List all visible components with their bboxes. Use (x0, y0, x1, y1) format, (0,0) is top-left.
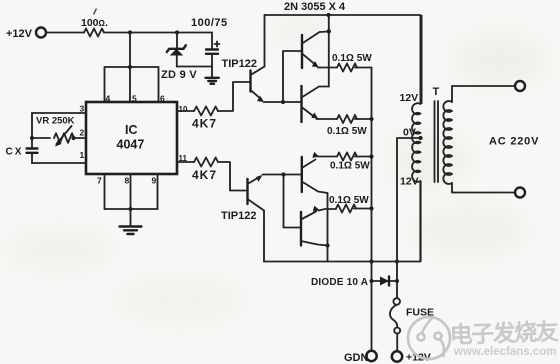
stray mark (94, 9, 97, 15)
capacitor CX (6, 147, 38, 164)
svg-text:TIP122: TIP122 (221, 210, 256, 222)
wire join pins 7-9 (105, 208, 158, 210)
transistor TIP122 upper (222, 58, 265, 102)
wire pin11 to lower TIP122 base (218, 162, 246, 191)
node junction at feed (128, 30, 132, 34)
wire branch down to Q4 base (284, 175, 302, 228)
node collectors join (325, 243, 329, 247)
wire R3 to bus (355, 156, 372, 158)
wire R1 to bus (355, 67, 372, 69)
transformer T primary winding (412, 103, 420, 182)
svg-text:4: 4 (106, 94, 111, 104)
IC U1 4047 box (86, 102, 177, 174)
wire bracket horizontal (105, 66, 159, 68)
terminal +12V input (6, 28, 46, 41)
resistor R 4K7 lower (192, 158, 218, 183)
svg-text:0.1Ω 5W: 0.1Ω 5W (327, 126, 367, 137)
transistor Q2 2N3055 (302, 86, 329, 122)
terminal AC bottom (515, 188, 525, 198)
node center tap (418, 136, 422, 140)
svg-text:12V: 12V (400, 92, 419, 104)
transformer T primary lead top (420, 15, 423, 104)
wire top rail left (46, 32, 84, 34)
wire R4 to bus (354, 208, 372, 210)
node base branch upper (281, 100, 285, 104)
svg-text:100/75: 100/75 (191, 17, 228, 29)
wire secondary bottom lead (452, 183, 516, 193)
svg-text:GDN: GDN (344, 352, 369, 364)
transformer core (435, 101, 439, 182)
transistor Q4 2N3055 (301, 206, 328, 246)
wire top rail to cap (104, 32, 212, 34)
svg-text:DIODE 10 A: DIODE 10 A (311, 277, 368, 288)
svg-text:12V: 12V (400, 176, 419, 188)
node diode right (395, 279, 399, 283)
transistor TIP122 lower (221, 175, 264, 222)
svg-text:5: 5 (132, 94, 137, 104)
ground below IC (120, 209, 142, 234)
wire Q1 emitter to R1 (318, 67, 337, 69)
node junction at zener (175, 30, 179, 34)
svg-text:4047: 4047 (117, 138, 145, 152)
capacitor 100/75 (191, 17, 228, 67)
potentiometer VR 250K (30, 116, 86, 147)
wire pin9 drop (157, 174, 159, 209)
resistor R3 0.1ohm 5W (330, 153, 370, 172)
wire pin5 drop (129, 67, 131, 102)
node tap bottom rail (395, 259, 399, 263)
resistor R 4K7 upper (192, 107, 218, 131)
svg-text:TIP122: TIP122 (222, 58, 257, 70)
wire pin1 (32, 162, 86, 164)
svg-text:ZD 9 V: ZD 9 V (161, 69, 197, 81)
wire pin10 to TIP122 base (218, 82, 251, 111)
wire R2 to bus (355, 118, 372, 120)
resistor 100ohm (81, 17, 108, 37)
node bus R2 (369, 117, 373, 121)
node bus R4 (369, 206, 373, 210)
svg-text:10: 10 (179, 105, 188, 114)
watermark text (449, 318, 559, 358)
terminal +12 battery (392, 351, 431, 363)
wire feed down to pins bracket (129, 33, 131, 68)
wire zener to cap bottom (177, 66, 212, 68)
svg-text:IC: IC (125, 123, 138, 137)
svg-text:+12V: +12V (6, 28, 33, 40)
svg-text:0.1Ω 5W: 0.1Ω 5W (329, 195, 369, 206)
transformer secondary winding (443, 101, 452, 184)
svg-text:3: 3 (80, 104, 85, 114)
wire Q2 emitter to R2 (317, 118, 338, 120)
node on bracket (128, 65, 132, 69)
svg-text:4K7: 4K7 (192, 168, 217, 182)
node Q1 collector joint (327, 29, 331, 33)
node diode left (370, 279, 374, 283)
wire pin6 drop (158, 67, 160, 102)
wire left vertical (31, 113, 33, 149)
wire TIP122 emitter to bases (264, 101, 302, 103)
terminal GDN (344, 351, 377, 364)
resistor R4 0.1ohm 5W (329, 195, 369, 213)
watermark logo (408, 317, 450, 359)
node base branch lower (281, 172, 285, 176)
wire Q3 collector vertical (327, 193, 329, 262)
wire pin11 (177, 161, 194, 163)
svg-text:8: 8 (125, 176, 130, 186)
svg-text:2N 3055 X 4: 2N 3055 X 4 (284, 1, 346, 13)
svg-text:www.elecfans.com: www.elecfans.com (453, 346, 556, 358)
node bus R3 (369, 154, 373, 158)
wire lower TIP122 collector to bottom rail (263, 211, 265, 262)
wire center tap (397, 138, 421, 298)
wire Q4 emitter to R4 (319, 209, 337, 211)
wire pin8 drop (130, 174, 132, 209)
wire pin4 drop (104, 67, 106, 102)
svg-text:100Ω.: 100Ω. (81, 17, 108, 29)
svg-text:4K7: 4K7 (192, 117, 217, 131)
emitter bus vertical (371, 68, 373, 352)
wire branch up to Q1 base (283, 51, 302, 102)
fuse (390, 298, 434, 351)
transformer T primary lead bottom (419, 181, 421, 262)
terminal AC top (515, 81, 525, 91)
svg-text:6: 6 (160, 94, 165, 104)
wire Q3 emitter to R3 (318, 156, 337, 158)
svg-text:CX: CX (6, 147, 24, 158)
diode 10A (311, 277, 397, 289)
wire pin10 (177, 110, 194, 112)
svg-text:2: 2 (80, 128, 85, 138)
wire lower TIP122 emitter to bases (263, 174, 302, 176)
wire secondary top lead (452, 86, 516, 102)
svg-text:1: 1 (80, 150, 85, 160)
svg-text:0.1Ω 5W: 0.1Ω 5W (332, 53, 372, 64)
node rail Q1 (326, 13, 330, 17)
svg-text:AC 220V: AC 220V (489, 136, 539, 148)
wire pin7 drop (104, 174, 106, 209)
bottom rail (264, 261, 421, 263)
wire Q1 collector vertical (328, 14, 330, 87)
transistor Q1 2N3055 (302, 32, 329, 69)
svg-text:VR 250K: VR 250K (36, 116, 75, 127)
zener diode ZD 9V (161, 33, 197, 82)
ground below cap (206, 67, 219, 84)
node join (128, 207, 132, 211)
transistor Q3 2N3055 (302, 152, 328, 193)
svg-text:7: 7 (97, 176, 102, 186)
svg-text:电子发烧友: 电子发烧友 (449, 318, 559, 348)
svg-text:T: T (433, 86, 440, 98)
node bus bottom rail (369, 259, 373, 263)
resistor R2 0.1ohm 5W (327, 115, 367, 137)
svg-text:0.1Ω 5W: 0.1Ω 5W (330, 161, 370, 172)
wire top rail (265, 14, 421, 16)
svg-text:0V: 0V (403, 127, 416, 139)
svg-text:9: 9 (152, 176, 157, 186)
resistor R1 0.1ohm 5W (332, 53, 372, 72)
wire pin3 (32, 112, 86, 114)
wire TIP122 collector to rail (264, 15, 266, 67)
